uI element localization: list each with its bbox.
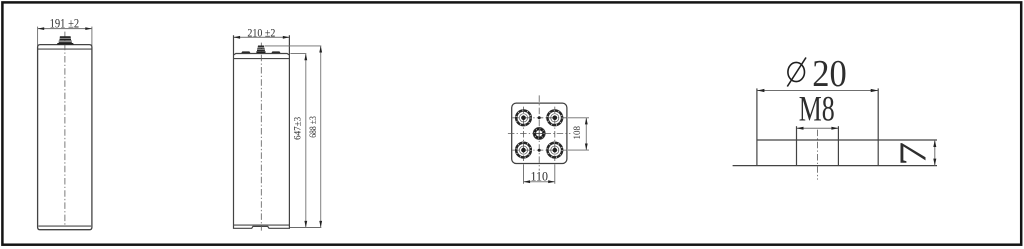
row center line bottom (512, 149, 567, 151)
arrow right Ø20 (871, 89, 879, 92)
terminal knob side (256, 51, 265, 53)
center line (260, 43, 262, 231)
arrow left 191 (38, 27, 45, 30)
arrow right M8 (831, 127, 838, 130)
arrow up 688 (319, 46, 322, 53)
thread line left (796, 126, 798, 165)
arrow down 647 (304, 221, 307, 228)
lid bottom line (234, 58, 290, 60)
center line (64, 32, 66, 226)
arrow down 688 (319, 221, 322, 228)
svg-text:7: 7 (892, 142, 934, 166)
vertical center line (538, 95, 540, 170)
arrow down 7 (933, 159, 936, 166)
dimension line 110 (524, 181, 555, 183)
column center line right (554, 107, 556, 161)
arrow up 108 (585, 118, 588, 125)
top cover outline (512, 103, 567, 163)
extension line bottom (290, 227, 321, 229)
thread line right (837, 126, 839, 165)
arrow right 191 (85, 27, 92, 30)
dimension line 108 (585, 118, 587, 150)
extension line 110 right (554, 164, 556, 184)
lid surface line (733, 165, 937, 167)
arrow down 108 (585, 144, 588, 151)
lid top line (234, 54, 290, 56)
terminal top line (757, 139, 937, 141)
arrow left M8 (797, 127, 804, 130)
extension line 110 left (523, 164, 525, 184)
horizontal center line (508, 132, 571, 134)
terminal knob front (57, 43, 74, 45)
arrow left 210 (234, 36, 241, 39)
lid bottom line (38, 48, 92, 50)
arrow left 110 (524, 180, 531, 183)
row center line top (512, 117, 567, 119)
terminal BR (548, 143, 563, 158)
dimension line M8 (797, 127, 839, 129)
vent bump left (241, 51, 250, 53)
terminal BL (516, 143, 531, 158)
terminal TL (516, 111, 531, 126)
side body outline (234, 35, 290, 228)
bottom band line (38, 225, 91, 227)
arrow right 110 (548, 180, 555, 183)
svg-text:110: 110 (530, 170, 548, 184)
extension line top (688) (265, 45, 322, 47)
center line terminal (817, 130, 819, 180)
dimension line 210 (234, 36, 290, 38)
center valve (533, 127, 545, 139)
svg-text:M8: M8 (799, 88, 835, 128)
diameter symbol (787, 58, 806, 87)
terminal TR (548, 111, 563, 126)
vent dot bottom (538, 149, 541, 152)
bottom line (234, 224, 290, 226)
terminal left edge (756, 88, 758, 165)
extension line left (37, 27, 39, 46)
arrow right 210 (283, 36, 290, 39)
battery body outline (38, 45, 92, 230)
dimension line 191 (38, 28, 92, 30)
extension line 108 bottom (568, 149, 589, 151)
dimension line Ø20 (757, 90, 878, 92)
extension line 108 top (568, 117, 589, 119)
svg-text:647±3: 647±3 (292, 117, 303, 140)
vent dot top (538, 116, 541, 119)
terminal right edge (877, 88, 879, 165)
dimension line 647 (305, 54, 307, 228)
extension line lid (647) (290, 53, 306, 55)
arrow left Ø20 (757, 89, 765, 92)
arrow up 647 (304, 54, 307, 61)
arrow up 7 (933, 140, 936, 147)
svg-text:688 ±3: 688 ±3 (308, 116, 319, 138)
extension line right (91, 27, 93, 46)
dimension line 688 (320, 46, 322, 228)
dimension line 7 (934, 140, 936, 166)
svg-text:108: 108 (572, 126, 583, 140)
vent bump right (271, 51, 280, 53)
column center line left (523, 107, 525, 161)
